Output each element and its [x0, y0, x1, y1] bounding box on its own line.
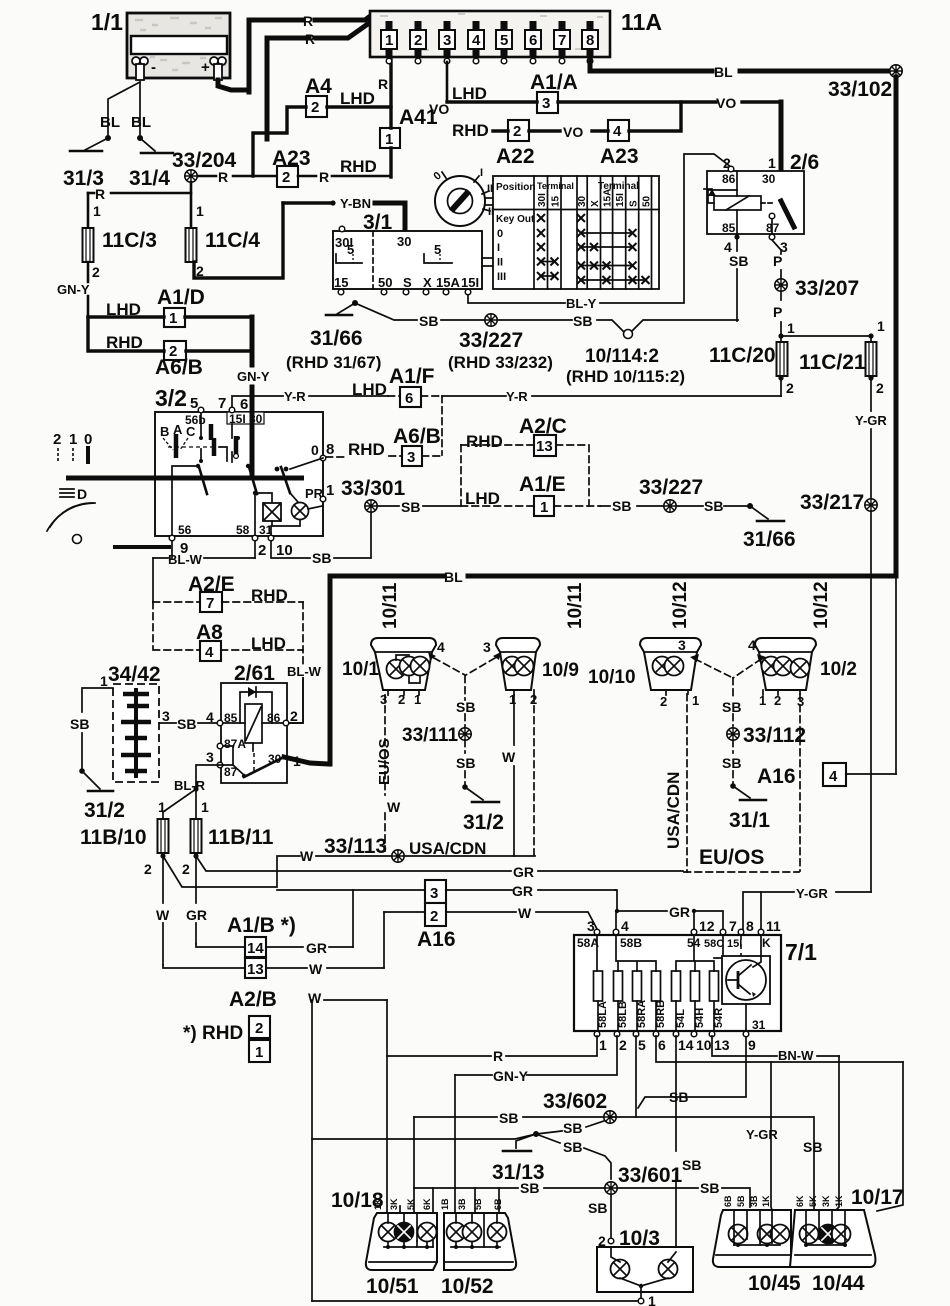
svg-text:10/44: 10/44 — [812, 1272, 865, 1295]
wire SB from relay 85 — [736, 239, 738, 321]
svg-text:58A: 58A — [577, 936, 599, 950]
connector A16 boxes 3 and 2 — [425, 880, 446, 903]
resistor 54R — [710, 971, 719, 1001]
svg-text:31: 31 — [752, 1018, 766, 1032]
key symbol — [431, 167, 497, 266]
wire SB row 33/601 west — [414, 1187, 604, 1189]
svg-text:SB: SB — [312, 550, 331, 566]
wire splice down to 11C/4 and left branch — [190, 182, 193, 228]
battery 1/1 — [127, 13, 230, 80]
svg-text:I: I — [497, 242, 500, 254]
fuse 6 in 11A — [525, 21, 541, 64]
svg-text:34/42: 34/42 — [108, 663, 161, 686]
svg-text:(RHD 33/232): (RHD 33/232) — [448, 353, 553, 372]
svg-text:1: 1 — [158, 799, 166, 815]
svg-text:1: 1 — [759, 693, 766, 708]
svg-text:A1/D: A1/D — [157, 286, 205, 309]
ground 31/3 — [105, 135, 111, 141]
svg-text:A23: A23 — [600, 145, 639, 168]
svg-text:BL: BL — [100, 114, 120, 131]
svg-text:3: 3 — [206, 749, 214, 765]
resistor 58RB — [652, 971, 661, 1001]
svg-text:S: S — [403, 275, 412, 290]
svg-text:15I: 15I — [615, 193, 626, 207]
svg-text:SB: SB — [499, 1110, 518, 1126]
resistor 58RA — [633, 971, 642, 1001]
svg-text:30: 30 — [762, 172, 776, 186]
svg-text:-: - — [151, 59, 156, 76]
svg-text:10/10: 10/10 — [588, 667, 636, 688]
svg-text:3K: 3K — [821, 1195, 831, 1207]
wire GN-Y into 3/2 — [250, 317, 255, 478]
svg-text:12: 12 — [699, 918, 715, 934]
ignition position table — [493, 176, 659, 289]
wire 11C/20 pin2 to Y-R row — [780, 378, 782, 396]
svg-text:II: II — [497, 257, 503, 269]
svg-text:10/51: 10/51 — [366, 1275, 419, 1298]
wire pin14 down to 10/3 — [675, 1036, 677, 1246]
svg-text:EU/OS: EU/OS — [699, 846, 764, 869]
lamp 10/9 pin1 W down — [513, 695, 515, 856]
svg-text:SB: SB — [722, 755, 741, 771]
svg-text:RHD: RHD — [106, 333, 143, 352]
wire 2/61 87 BL-R down — [196, 765, 223, 789]
svg-text:3: 3 — [542, 95, 550, 112]
svg-text:1: 1 — [648, 1293, 656, 1306]
svg-text:4: 4 — [472, 32, 481, 49]
splice 33/207 — [775, 279, 787, 291]
svg-text:A22: A22 — [496, 145, 535, 168]
wire W down from 11B/10 — [162, 856, 164, 965]
svg-text:3: 3 — [162, 708, 170, 724]
svg-text:BN-W: BN-W — [778, 1048, 814, 1063]
svg-text:1: 1 — [877, 318, 885, 334]
svg-text:SB: SB — [563, 1139, 582, 1155]
splice 33/102 — [890, 65, 902, 77]
svg-text:2: 2 — [290, 708, 298, 724]
svg-text:C: C — [186, 424, 196, 439]
svg-text:13: 13 — [536, 438, 553, 455]
wire 31/13 node to 33/601 — [536, 1134, 611, 1179]
wire Y-GR down to 10/45 — [771, 1062, 772, 1210]
svg-text:1: 1 — [196, 203, 204, 219]
fuse 11C/21 — [870, 338, 872, 343]
svg-text:SB: SB — [722, 699, 741, 715]
svg-text:2: 2 — [774, 693, 781, 708]
fuse 7 in 11A — [554, 21, 570, 64]
dashed SB chain 33/112 — [732, 678, 734, 726]
svg-text:2: 2 — [619, 1037, 627, 1053]
svg-text:0: 0 — [311, 442, 319, 458]
svg-text:2: 2 — [255, 1020, 263, 1037]
wire 2/61 86 up BL-W — [289, 678, 303, 723]
svg-text:6: 6 — [405, 390, 413, 407]
svg-text:SB: SB — [401, 499, 420, 515]
ground 31/66 — [352, 300, 358, 306]
ground 31/4 — [137, 135, 143, 141]
wire GR row from 11B/11 diag — [196, 856, 683, 871]
svg-text:5K: 5K — [406, 1198, 416, 1210]
svg-text:33/227: 33/227 — [639, 476, 703, 499]
wire SB from 33/602 row down to 10/45 — [610, 1117, 814, 1209]
2/61 terminals — [217, 720, 223, 726]
wire 56 to pin 9 — [172, 466, 198, 538]
svg-text:W: W — [300, 848, 314, 864]
dashed EU/OS bracket — [684, 871, 799, 873]
svg-text:1K: 1K — [761, 1195, 771, 1207]
svg-text:A1/F: A1/F — [389, 365, 435, 388]
svg-text:31/66: 31/66 — [310, 327, 363, 350]
wire R rail top — [249, 14, 373, 20]
svg-text:W: W — [387, 799, 401, 815]
wire BL down to 2/61 30 — [328, 576, 333, 764]
resistor 54L — [672, 971, 681, 1001]
svg-text:1: 1 — [201, 799, 209, 815]
wire top link 11C/20 to 11C/21 — [781, 335, 871, 337]
wire BL battery minus leads — [108, 82, 140, 137]
svg-text:2: 2 — [53, 431, 61, 448]
wire pin5 down to 33/602 — [635, 1036, 637, 1117]
svg-text:(RHD 10/115:2): (RHD 10/115:2) — [566, 367, 685, 386]
svg-text:7: 7 — [558, 32, 566, 49]
wire SB from 34/42 pin1 to ground 31/2 — [82, 688, 113, 771]
wire GR down from 11B/11 — [195, 856, 197, 944]
connector 10/114:2 — [624, 330, 633, 339]
thick BL bus row — [330, 574, 896, 579]
dashed SB chain 33/111 — [464, 676, 466, 728]
fuse 1 in 11A — [381, 21, 397, 64]
fuse 5 in 11A — [496, 21, 512, 64]
svg-text:10/45: 10/45 — [748, 1272, 801, 1295]
svg-text:BL-W: BL-W — [287, 664, 322, 679]
label P — [780, 292, 782, 335]
svg-text:33/111: 33/111 — [402, 725, 458, 746]
svg-text:SB: SB — [563, 1120, 582, 1136]
ground 31/13 — [516, 1134, 536, 1148]
wire 2/61 30 to BL bus — [284, 757, 328, 764]
svg-text:GR: GR — [306, 940, 327, 956]
wire GN-Y from 11C/3 — [87, 262, 90, 317]
svg-text:6K: 6K — [795, 1195, 805, 1207]
svg-text:6K: 6K — [422, 1198, 432, 1210]
svg-text:1: 1 — [692, 693, 699, 708]
svg-text:6: 6 — [240, 396, 248, 413]
svg-text:4: 4 — [437, 639, 445, 655]
svg-text:LHD: LHD — [352, 380, 387, 399]
square connector symbol in 3/2 — [255, 493, 272, 505]
svg-text:1: 1 — [255, 1044, 263, 1061]
svg-text:3: 3 — [380, 692, 387, 707]
pins 2 below — [160, 853, 165, 858]
wire BN-W from pin13 — [712, 1036, 839, 1056]
lamp 10/2 pin3 dashed EU/OS — [799, 694, 801, 871]
wire SB row west from 33/602 — [414, 1116, 603, 1118]
svg-text:2: 2 — [786, 380, 794, 396]
svg-text:10/12: 10/12 — [670, 581, 691, 629]
svg-text:10/17: 10/17 — [851, 1186, 904, 1209]
svg-text:9: 9 — [748, 1037, 756, 1053]
svg-text:33/217: 33/217 — [800, 491, 864, 514]
svg-text:4: 4 — [206, 709, 214, 725]
svg-text:31/2: 31/2 — [84, 799, 125, 822]
svg-text:3/2: 3/2 — [155, 385, 187, 411]
svg-text:SB: SB — [456, 755, 475, 771]
svg-text:X: X — [423, 275, 432, 290]
svg-text:1: 1 — [93, 203, 101, 219]
svg-text:3K: 3K — [389, 1198, 399, 1210]
svg-text:1: 1 — [414, 692, 421, 707]
svg-text:5B: 5B — [473, 1198, 483, 1210]
svg-text:SB: SB — [520, 1180, 539, 1196]
svg-text:BL: BL — [714, 64, 733, 80]
fuse 11C/20 — [780, 338, 782, 343]
svg-text:2: 2 — [144, 861, 152, 877]
svg-text:11: 11 — [766, 918, 781, 934]
svg-text:33/112: 33/112 — [743, 724, 806, 747]
wire VO row LHD — [447, 100, 781, 103]
wire fuse3 VO down — [446, 62, 449, 102]
wire to 11B fuses — [193, 786, 198, 791]
wire Y-R solid to 11C/20 — [442, 395, 781, 397]
svg-text:R: R — [95, 186, 105, 202]
ground 31/1 — [730, 783, 736, 789]
svg-text:R: R — [378, 76, 388, 92]
svg-text:3: 3 — [407, 449, 415, 466]
svg-text:BL-R: BL-R — [174, 778, 206, 793]
lamp 10/52 — [444, 1213, 516, 1270]
svg-text:5: 5 — [638, 1037, 646, 1053]
svg-text:SB: SB — [456, 699, 475, 715]
svg-text:Y-GR: Y-GR — [796, 886, 828, 901]
svg-text:W: W — [156, 907, 170, 923]
svg-text:15: 15 — [551, 195, 562, 207]
svg-text:VO: VO — [563, 124, 583, 140]
svg-text:6: 6 — [529, 32, 537, 49]
wire bottom to ground line — [312, 1300, 638, 1302]
fuse 3 in 11A — [439, 21, 455, 64]
svg-text:1: 1 — [509, 692, 516, 707]
svg-text:15: 15 — [334, 275, 348, 290]
wire BL-W from 3/2 — [172, 541, 255, 558]
wire W row from 11B/10 diag — [163, 856, 394, 887]
wire line to A16-3 — [277, 889, 615, 891]
svg-text:33/301: 33/301 — [341, 477, 406, 500]
fuse 4 in 11A — [468, 21, 484, 64]
svg-text:33/601: 33/601 — [618, 1164, 683, 1187]
svg-text:11C/21: 11C/21 — [799, 351, 866, 374]
wire 33/602 to 31/13 node — [536, 1121, 604, 1134]
svg-text:1: 1 — [787, 320, 795, 336]
svg-text:R: R — [218, 169, 228, 185]
svg-text:Terminal: Terminal — [537, 181, 574, 191]
svg-text:3: 3 — [483, 639, 491, 655]
svg-text:30I: 30I — [537, 193, 548, 207]
svg-text:85: 85 — [722, 221, 736, 235]
svg-text:2: 2 — [311, 99, 319, 116]
svg-text:1: 1 — [385, 32, 393, 49]
wire 33/301 down to 3/2 pin10 SB — [271, 512, 371, 558]
svg-text:4: 4 — [205, 644, 214, 661]
svg-text:86: 86 — [722, 172, 736, 186]
wire GN-Y row from 7/1 pin2 — [455, 1036, 617, 1075]
svg-text:P: P — [773, 253, 782, 269]
svg-text:3: 3 — [430, 885, 438, 902]
wire 11C/4 to Y-BN — [194, 203, 283, 278]
wire A23 RHD row — [298, 175, 391, 178]
resistor 58LA — [594, 971, 603, 1001]
svg-text:GN-Y: GN-Y — [493, 1068, 529, 1084]
svg-text:R: R — [305, 31, 315, 47]
svg-text:A1/E: A1/E — [519, 473, 566, 496]
svg-text:SB: SB — [729, 253, 748, 269]
svg-text:2: 2 — [876, 380, 884, 396]
svg-text:BL: BL — [131, 114, 151, 131]
svg-text:30: 30 — [397, 234, 411, 249]
svg-text:15I: 15I — [461, 275, 479, 290]
wire SB row 33/601 east — [618, 1188, 750, 1207]
svg-text:GR: GR — [513, 864, 534, 880]
wire SB row under ignition — [355, 303, 484, 320]
svg-text:31/66: 31/66 — [743, 528, 796, 551]
svg-text:2: 2 — [513, 123, 521, 140]
svg-text:14: 14 — [678, 1037, 694, 1053]
svg-text:3B: 3B — [749, 1195, 759, 1207]
wire Y-BN to ignition 30 — [375, 203, 405, 231]
svg-text:I: I — [480, 167, 483, 179]
svg-text:A1/B *): A1/B *) — [227, 914, 296, 937]
wire BL down right side — [894, 77, 899, 574]
wire battery plus to R rails — [218, 80, 249, 90]
PR lamp in 3/2 — [290, 493, 298, 502]
svg-text:10/9: 10/9 — [542, 660, 579, 681]
svg-text:33/602: 33/602 — [543, 1090, 607, 1113]
svg-text:1: 1 — [326, 482, 334, 499]
svg-text:GR: GR — [186, 907, 207, 923]
svg-text:W: W — [308, 990, 322, 1006]
wire A4 LHD row — [253, 107, 306, 176]
lamp 10/10 pin1 dashed USA/CDN — [686, 694, 688, 872]
svg-text:1K: 1K — [373, 1198, 383, 1210]
svg-text:1: 1 — [169, 310, 177, 327]
svg-text:1: 1 — [100, 673, 108, 689]
wire SB to connector 10/114:2 — [498, 320, 623, 331]
svg-text:SB: SB — [704, 498, 723, 514]
svg-text:7: 7 — [206, 595, 214, 612]
svg-text:13: 13 — [714, 1037, 730, 1053]
svg-text:33/227: 33/227 — [459, 329, 523, 352]
svg-text:SB: SB — [588, 1200, 607, 1216]
svg-text:Y-BN: Y-BN — [340, 196, 371, 211]
svg-text:6B: 6B — [723, 1195, 733, 1207]
svg-text:3: 3 — [678, 637, 686, 653]
wire Y-R row from 3/2 pin7 — [232, 396, 388, 410]
svg-text:11C/3: 11C/3 — [102, 229, 157, 252]
svg-text:BL: BL — [444, 569, 463, 585]
svg-text:R: R — [319, 169, 329, 185]
svg-text:GR: GR — [669, 904, 690, 920]
ground 31/2b — [462, 784, 468, 790]
wire W row via A16-2 — [384, 912, 597, 929]
svg-text:10/12: 10/12 — [811, 581, 832, 629]
wire pin6 row right — [656, 1036, 903, 1062]
svg-text:30: 30 — [577, 195, 588, 207]
svg-text:3B: 3B — [457, 1198, 467, 1210]
wire BL branch down to A16-4 — [895, 576, 897, 774]
svg-text:8: 8 — [326, 441, 334, 458]
wire long west line to bottom — [312, 1134, 536, 1139]
svg-text:III: III — [497, 271, 506, 283]
svg-text:RHD: RHD — [340, 157, 377, 176]
svg-text:S: S — [629, 200, 640, 207]
fuse 11C/3 — [83, 228, 94, 262]
svg-text:Y-GR: Y-GR — [855, 413, 887, 428]
wire Y-GR row to 7/1 pin8 — [743, 892, 871, 931]
wire R row from 7/1 pin1 — [387, 1036, 597, 1056]
svg-text:+: + — [201, 59, 210, 76]
svg-text:A6/B: A6/B — [393, 425, 441, 448]
svg-text:GN-Y: GN-Y — [57, 282, 90, 297]
wire P from relay 87 — [772, 240, 781, 278]
svg-text:A2/B: A2/B — [229, 988, 277, 1011]
svg-text:LHD: LHD — [452, 84, 487, 103]
svg-text:5: 5 — [190, 395, 198, 412]
svg-text:10/2: 10/2 — [820, 659, 857, 680]
wire VO down to relay 2/6 pin1 — [779, 102, 784, 175]
dashed link A1/F to A6/B — [441, 396, 443, 455]
ground 31/66b — [747, 503, 753, 509]
resistor 58LB — [614, 971, 623, 1001]
svg-text:50: 50 — [642, 195, 653, 207]
svg-text:SB: SB — [669, 1089, 688, 1105]
wire pin11 up — [760, 892, 762, 931]
svg-text:SB: SB — [803, 1139, 822, 1155]
svg-text:3: 3 — [587, 918, 595, 934]
svg-text:Position: Position — [496, 182, 535, 193]
svg-text:11B/11: 11B/11 — [208, 826, 274, 849]
wire fuse8 to BL row — [590, 57, 892, 71]
3/2 switch internals: main bar — [66, 476, 304, 481]
svg-text:31/2: 31/2 — [463, 811, 504, 834]
svg-text:11C/4: 11C/4 — [205, 229, 260, 252]
pin 2 labels — [778, 375, 783, 380]
wire 33/601 down to 10/3 — [610, 1195, 612, 1238]
svg-text:7: 7 — [218, 395, 226, 412]
svg-text:14: 14 — [247, 940, 264, 957]
svg-text:2: 2 — [398, 692, 405, 707]
svg-text:K: K — [762, 936, 771, 950]
svg-text:10/11: 10/11 — [565, 582, 586, 629]
ignition terminals — [339, 226, 345, 232]
svg-text:0: 0 — [84, 431, 92, 448]
svg-text:W: W — [309, 961, 323, 977]
svg-text:W: W — [518, 905, 532, 921]
svg-text:2: 2 — [258, 542, 266, 559]
svg-text:Y-R: Y-R — [284, 389, 306, 404]
svg-text:2: 2 — [660, 694, 667, 709]
svg-text:11A: 11A — [621, 9, 662, 35]
svg-text:R: R — [493, 1048, 503, 1064]
svg-text:Y-GR: Y-GR — [746, 1127, 778, 1142]
svg-text:RHD: RHD — [452, 121, 489, 140]
svg-text:11C/20: 11C/20 — [709, 344, 776, 367]
svg-text:A16: A16 — [757, 765, 796, 788]
svg-text:56: 56 — [178, 523, 192, 537]
svg-text:2/61: 2/61 — [234, 662, 275, 685]
svg-text:10/1: 10/1 — [342, 659, 379, 680]
svg-text:13: 13 — [247, 961, 264, 978]
lamp 10/9 pin2 dashed down — [533, 695, 535, 856]
svg-text:33/102: 33/102 — [828, 78, 892, 101]
